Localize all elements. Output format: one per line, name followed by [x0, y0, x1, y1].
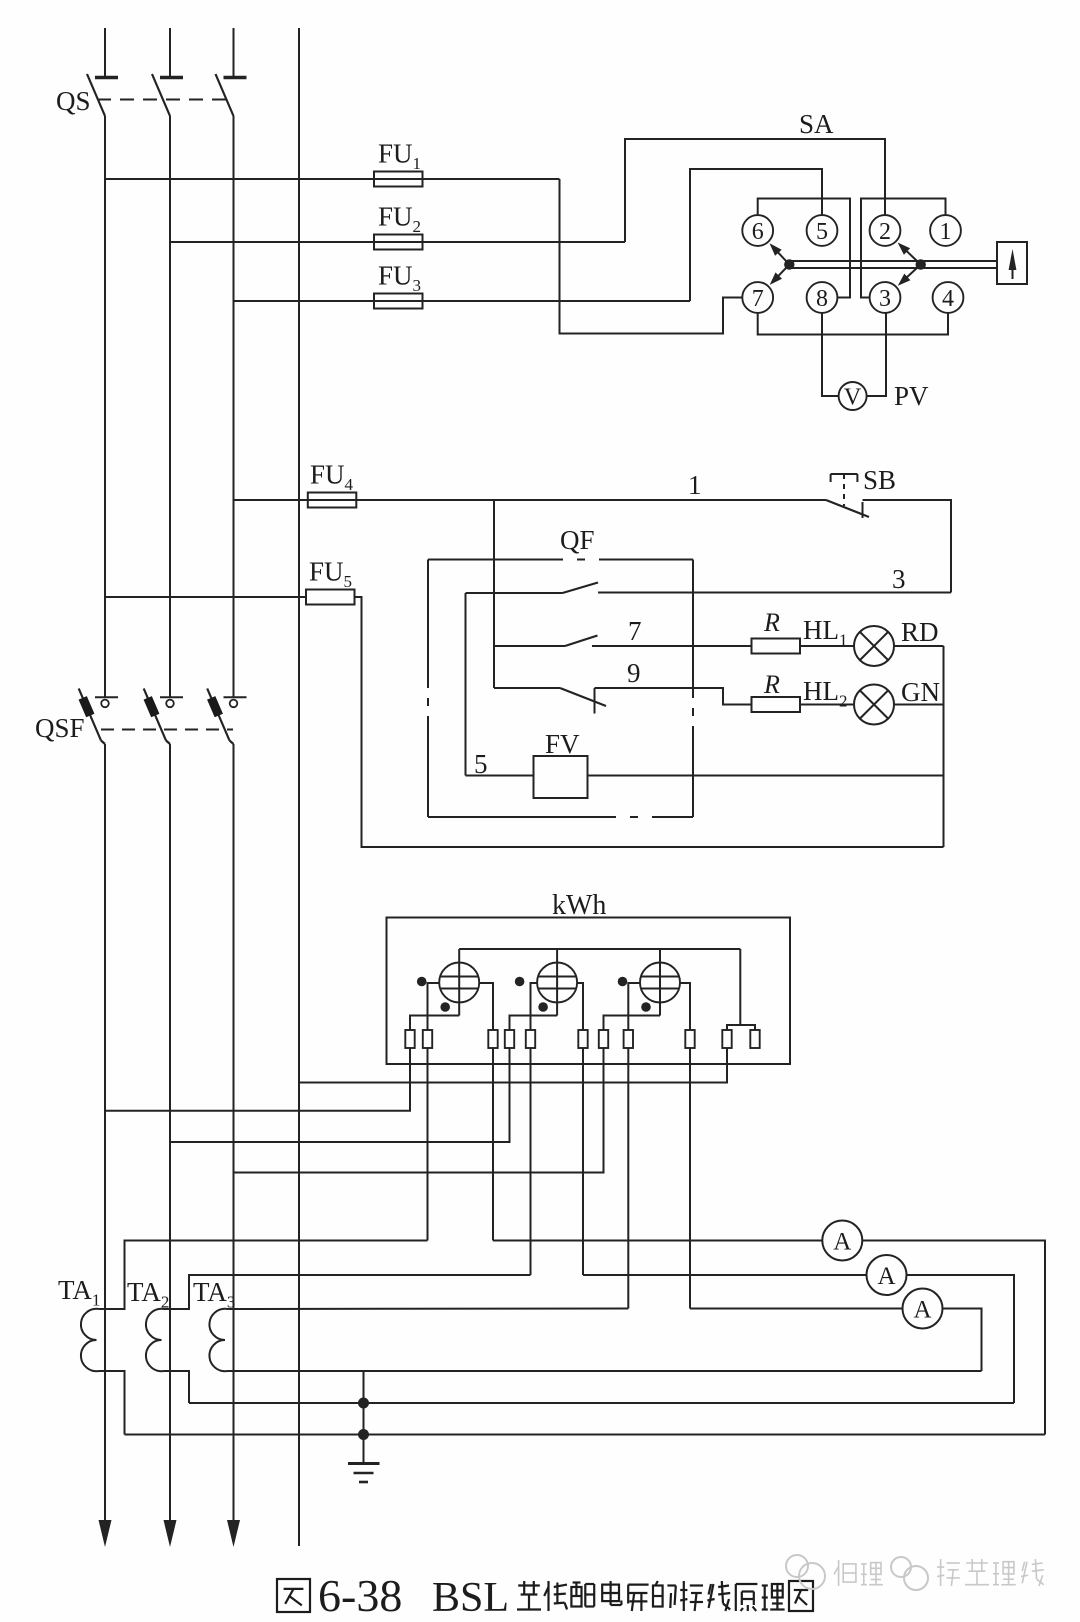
current transformer TA3 secondary winding: [209, 1309, 227, 1371]
SA contact 1: [930, 215, 961, 246]
wire terminal 9 to ammeter A3 and return: [690, 1309, 982, 1372]
QS fixed contact bar phase 1: [95, 76, 118, 80]
kWh voltage-common feed: [727, 949, 740, 1030]
wire SA contact 8 to voltmeter: [822, 313, 839, 396]
wire terminal 6 drop: [582, 1048, 584, 1275]
SA contact 8: [807, 282, 838, 313]
wire TA2 secondary top lead to terminal 5: [164, 1275, 531, 1309]
QSF linkage dashed line: [101, 729, 233, 731]
ammeter A3: [903, 1289, 943, 1329]
kWh terminal 5: [526, 1030, 535, 1048]
kWh terminal 1: [405, 1030, 414, 1048]
kWh element 2 current lead right: [577, 983, 583, 1030]
SA arrow pivot-left to 6: [776, 251, 789, 265]
QSF fixed contact phase 1: [95, 696, 118, 698]
kWh terminal 4: [505, 1030, 514, 1048]
wire TA3 secondary bottom lead / common: [228, 1370, 982, 1372]
svg-text:R: R: [763, 670, 780, 699]
current transformer TA2 secondary winding: [146, 1309, 164, 1371]
pushbutton SB: [831, 473, 858, 475]
wire SA bracket contact 1 to 3: [861, 199, 946, 298]
kWh measuring element 2 voltage lead: [556, 949, 558, 1016]
wire incoming supply stub phase 1: [104, 28, 106, 76]
wire terminal 10 to N bus: [299, 1048, 727, 1083]
SA contact 3: [870, 282, 901, 313]
kWh internal voltage bus: [459, 948, 740, 950]
current transformer TA1 secondary winding: [81, 1309, 99, 1371]
wire QF contact1 left lead down to node 5: [465, 593, 467, 776]
kWh measuring element 3 voltage lead: [659, 949, 661, 1016]
svg-text:BSL: BSL: [432, 1575, 509, 1621]
wire bus phase 2 (QS to QSF): [169, 116, 171, 697]
svg-text:1: 1: [688, 470, 702, 500]
fuse FU3: [374, 294, 423, 309]
svg-text:7: 7: [752, 286, 764, 312]
wire bus phase 3 (QS to QSF): [233, 116, 235, 697]
energy meter kWh enclosure: [387, 918, 791, 1065]
QS blade phase 3: [216, 74, 234, 116]
junction dot on A2 common: [358, 1398, 369, 1409]
SA arrow pivot-right to 2: [906, 250, 921, 264]
kWh measuring element 1 coil: [439, 963, 479, 1003]
wire terminal 5 drop: [530, 1048, 532, 1275]
wire terminal 3 to ammeter A1 and return: [493, 1241, 1045, 1435]
wire incoming supply stub phase 3: [233, 28, 235, 76]
kWh terminal 8: [624, 1030, 633, 1048]
wire bus phase 3 below QSF: [233, 744, 235, 1522]
wire terminal 1 to phase A bus: [105, 1048, 410, 1111]
QF auxiliary contact 1 (to FV circuit): [466, 592, 563, 594]
kWh terminal 2: [423, 1030, 432, 1048]
kWh terminal 11: [750, 1030, 759, 1048]
wire FU1 to SA contact 7: [560, 179, 743, 334]
SA handle box: [997, 242, 1027, 284]
SA contact 5: [807, 215, 838, 246]
wire FU3 to SA contact 5: [690, 169, 822, 301]
wire FV to lamp return: [588, 775, 944, 777]
wire FU1 line: [105, 178, 560, 180]
fuse FU1: [374, 172, 423, 187]
svg-text:QF: QF: [560, 525, 595, 555]
svg-text:8: 8: [816, 286, 828, 312]
svg-text:kWh: kWh: [552, 890, 606, 921]
svg-text:4: 4: [942, 286, 954, 312]
outgoing feeder arrow phase 3: [227, 1520, 240, 1547]
ammeter A1: [822, 1221, 862, 1261]
svg-text:QSF: QSF: [35, 713, 85, 743]
wire bus phase 1 below QSF: [104, 744, 106, 1522]
resistor R (HL1 branch): [752, 639, 801, 654]
outgoing feeder arrow phase 1: [99, 1520, 112, 1547]
svg-text:3: 3: [892, 564, 906, 594]
SA right pivot: [916, 259, 926, 269]
wire lamp common return: [943, 646, 945, 847]
wire terminal 3 drop: [492, 1048, 494, 1241]
SA contact 4: [933, 282, 964, 313]
svg-text:9: 9: [627, 658, 641, 688]
svg-text:6-38: 6-38: [318, 1570, 402, 1621]
wire SA bracket contact 7 to 4: [758, 313, 948, 335]
voltmeter PV: [839, 382, 867, 410]
wire TA1 secondary top lead to terminal 2: [99, 1241, 428, 1310]
kWh element 3 current lead left: [628, 983, 640, 1030]
wire terminal 8 drop: [627, 1048, 629, 1309]
svg-text:RD: RD: [901, 617, 939, 647]
svg-text:V: V: [844, 385, 862, 411]
wire terminal 9 drop: [689, 1048, 691, 1309]
watermark text 微信 / 技成培训: [834, 1560, 856, 1586]
SA contact 6: [742, 215, 773, 246]
QF auxiliary contact 2 (node 7): [494, 645, 565, 647]
wire node 5 to FV: [466, 775, 534, 777]
svg-text:5: 5: [816, 219, 828, 245]
QS linkage dashed line: [97, 99, 228, 101]
caption: 图 6-38 BSL 型低配电屏的接线原理图: [277, 1579, 310, 1612]
QSF fuse-blade phase 2: [144, 689, 166, 741]
lamp HL2: [800, 704, 854, 706]
ground symbol: [348, 1462, 380, 1465]
wire N bus (4th vertical line, top): [298, 28, 300, 1546]
svg-text:A: A: [913, 1297, 931, 1324]
outgoing feeder arrow phase 2: [164, 1520, 177, 1547]
wire incoming supply stub phase 2: [169, 28, 171, 76]
wire FU3 line: [234, 300, 691, 302]
kWh terminal 10: [722, 1030, 731, 1048]
QS fixed contact bar phase 2: [160, 76, 183, 80]
lamp HL1: [800, 645, 854, 647]
QS blade phase 1: [87, 74, 105, 116]
QS fixed contact bar phase 3: [224, 76, 247, 80]
wire bus phase 1 (QS to QSF): [104, 116, 106, 697]
svg-text:R: R: [763, 608, 780, 637]
kWh element 2 polarity dot lower: [538, 1002, 548, 1012]
wire SA shaft (double line): [789, 260, 997, 262]
kWh terminal 3: [488, 1030, 497, 1048]
wire terminal 7 to phase C bus: [234, 1048, 604, 1173]
wire FU4 tap into QF: [493, 500, 495, 688]
svg-text:7: 7: [628, 616, 642, 646]
kWh element 2 current lead left: [531, 983, 538, 1030]
wire TA1 secondary bottom lead: [99, 1371, 125, 1435]
wire node 3 line: [598, 592, 951, 594]
wire FU2 to SA contact 2: [625, 139, 885, 242]
QSF fuse-blade phase 3: [207, 689, 229, 741]
SA contact 2: [870, 215, 901, 246]
wire bus phase 2 below QSF: [169, 744, 171, 1522]
kWh terminal 9: [685, 1030, 694, 1048]
svg-text:PV: PV: [894, 381, 929, 411]
breaker QF enclosure (dash-dot box): [428, 559, 563, 561]
wire FU5 to control return: [355, 597, 944, 847]
svg-text:QS: QS: [56, 86, 91, 116]
kWh terminal 7: [599, 1030, 608, 1048]
wire TA2 secondary bottom lead: [164, 1371, 189, 1403]
QF auxiliary contact 3 (node 9, break contact): [494, 687, 560, 689]
svg-text:A: A: [833, 1229, 851, 1256]
junction dot on A1 common: [358, 1429, 369, 1440]
svg-text:6: 6: [752, 219, 764, 245]
QSF fixed contact phase 2: [160, 696, 183, 698]
kWh measuring element 3 coil: [640, 963, 680, 1003]
SA handle arrow: [1012, 264, 1014, 279]
wire secondary common (TA1/A1 return): [125, 1434, 1046, 1436]
wire FU2 line: [170, 241, 625, 243]
SA left pivot: [784, 259, 794, 269]
svg-text:2: 2: [879, 219, 891, 245]
svg-text:A: A: [877, 1263, 895, 1290]
wire terminal 2 drop: [427, 1048, 429, 1241]
kWh measuring element 2 coil: [537, 963, 577, 1003]
kWh element 2 polarity dot upper: [515, 977, 525, 987]
resistor R (HL2 branch): [752, 697, 801, 712]
kWh element 1 current lead right: [479, 983, 493, 1030]
fuse FU2: [374, 235, 423, 250]
wire SA bracket contact 6 to 8: [758, 199, 850, 298]
QSF fixed contact phase 3: [224, 696, 247, 698]
undervoltage release FV: [534, 756, 588, 798]
kWh element 3 polarity dot upper: [618, 977, 628, 987]
kWh element 1 current lead left: [428, 983, 440, 1030]
QSF fuse-blade phase 1: [79, 689, 101, 741]
svg-text:GN: GN: [901, 677, 940, 707]
SA contact 7: [742, 282, 773, 313]
QS blade phase 2: [152, 74, 170, 116]
wire SB to node 3: [863, 500, 952, 593]
wire terminal 4 to phase B bus: [170, 1048, 510, 1142]
wire secondary common (TA2/A2 return): [189, 1402, 1014, 1404]
svg-text:SB: SB: [863, 465, 896, 495]
kWh terminal 6: [578, 1030, 587, 1048]
wire TA3 secondary top lead to terminal 8: [228, 1308, 629, 1311]
fuse FU5: [306, 590, 355, 605]
kWh element 1 polarity dot upper: [417, 977, 427, 987]
wire FU5 line: [105, 596, 306, 598]
svg-text:1: 1: [940, 219, 952, 245]
svg-text:3: 3: [879, 286, 891, 312]
svg-text:FV: FV: [545, 729, 580, 759]
kWh measuring element 1 voltage lead: [458, 949, 460, 1016]
SA arrow pivot-left to 7: [777, 265, 790, 278]
SA arrow pivot-right to 3: [906, 265, 921, 279]
svg-text:SA: SA: [799, 109, 834, 139]
kWh element 1 polarity dot lower: [440, 1002, 450, 1012]
wire to ground: [363, 1371, 365, 1463]
kWh element 3 polarity dot lower: [641, 1002, 651, 1012]
wire terminal 6 to ammeter A2 and return: [583, 1275, 1014, 1403]
wire SA contact 3 to voltmeter: [867, 313, 886, 396]
fuse FU4: [308, 493, 357, 508]
ammeter A2: [867, 1255, 907, 1295]
kWh element 3 current lead right: [680, 983, 690, 1030]
wire FU4 line (node 1): [234, 499, 827, 501]
watermark wechat logo: [786, 1555, 928, 1590]
